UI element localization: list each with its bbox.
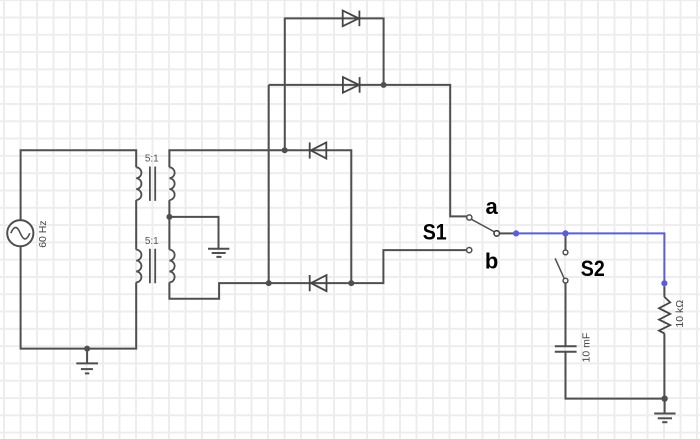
transformer T2 primary winding	[136, 250, 141, 283]
svg-text:60 Hz: 60 Hz	[37, 220, 49, 247]
wire: resistor bottom lead to ground node	[663, 333, 665, 398]
ground (center tap)	[208, 249, 229, 257]
voltage source V1 60 Hz	[7, 220, 33, 246]
diode D4 (row4, pointing left)	[310, 275, 327, 291]
wire: left vertical row2 to row4	[268, 85, 270, 283]
node: bottom right ground junction	[661, 395, 667, 401]
wire: AC source top to transformer primary top	[21, 150, 137, 220]
wire: S2 bottom lead to capacitor	[565, 283, 567, 346]
wire: row1 horizontal with verticals to row3 node and row2 node	[285, 18, 384, 150]
wire: between primary coils	[135, 200, 137, 250]
resistor R1 zigzag	[659, 297, 670, 334]
transformer T1 core	[150, 167, 155, 201]
blue node (S2 branch)	[562, 230, 568, 236]
transformer T1 secondary winding	[169, 167, 174, 200]
blue node (S1 side)	[513, 230, 519, 236]
wire: row2 horizontal to S1 terminal a	[269, 85, 467, 217]
transformer T1 primary winding	[136, 167, 141, 200]
wire: resistor top lead from blue node	[663, 286, 665, 297]
diode D2 (row2, pointing right)	[343, 77, 360, 93]
svg-text:5:1: 5:1	[145, 154, 159, 165]
wire: row4 horizontal to S1 terminal b	[269, 250, 467, 283]
ground (bottom right)	[654, 399, 675, 423]
wire: center tap to ground	[169, 217, 218, 249]
diode D3 (row3, pointing left)	[310, 142, 327, 158]
node: row4 right junction	[348, 280, 354, 286]
switch S2 arm (open)	[555, 258, 564, 278]
wire: S2 top lead	[565, 233, 567, 250]
wire: T1 secondary top, row3 horizontal, down to row4 right node	[169, 150, 351, 283]
blue wire: S1 pole node to resistor top	[516, 233, 664, 283]
wire: T2 secondary bottom step to row4 left node	[169, 282, 268, 298]
node: ground junction bottom left	[84, 346, 90, 352]
switch S1 terminal b circle	[467, 248, 472, 253]
svg-text:b: b	[485, 249, 498, 274]
capacitor C1 plates	[555, 346, 577, 352]
wire: capacitor bottom to ground node	[566, 352, 665, 399]
transformer T2 secondary winding	[169, 250, 174, 283]
svg-text:S1: S1	[423, 220, 447, 245]
transformer T2 core	[150, 249, 155, 283]
svg-text:S2: S2	[581, 256, 605, 281]
switch S1 arm (closed to a)	[471, 219, 494, 232]
svg-text:5:1: 5:1	[145, 236, 159, 247]
node: row2 junction	[381, 82, 387, 88]
node: center tap junction	[166, 214, 172, 220]
svg-text:10 mF: 10 mF	[581, 333, 593, 363]
ground (bottom left)	[76, 349, 98, 374]
switch S2 bottom circle	[563, 278, 568, 283]
node: row4 left junction	[266, 280, 272, 286]
wire: T1 secondary bottom to T2 secondary top	[168, 200, 170, 250]
switch S1 terminal a circle	[467, 215, 472, 220]
switch S2 top circle	[563, 250, 568, 255]
diode D1 (top row, pointing right)	[343, 11, 360, 27]
wire: primary bottom loop back to AC source	[21, 246, 137, 348]
node: row3 junction	[282, 147, 288, 153]
svg-text:a: a	[485, 194, 498, 219]
switch S1 pole circle	[494, 231, 500, 237]
blue node (resistor top)	[661, 280, 667, 286]
svg-text:10 kΩ: 10 kΩ	[674, 300, 686, 328]
wire: S1 pole stub to blue node	[499, 232, 513, 234]
